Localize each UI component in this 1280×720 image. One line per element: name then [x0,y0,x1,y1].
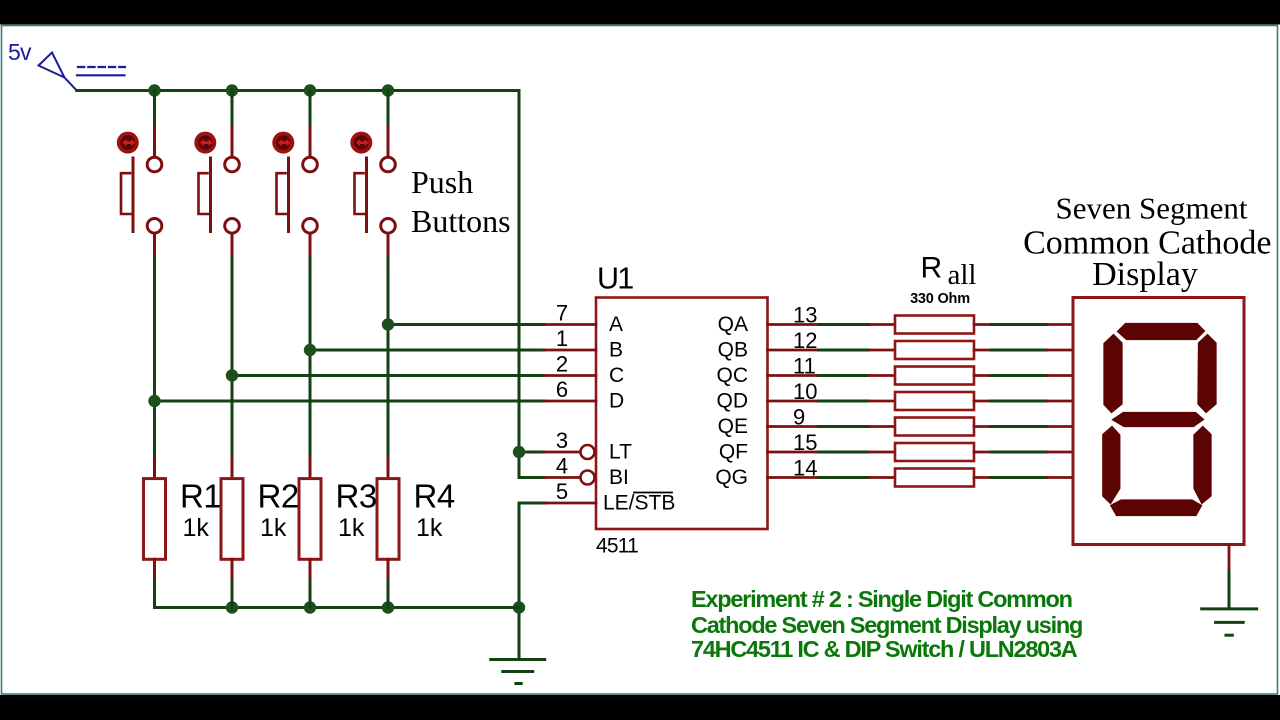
svg-text:2: 2 [556,352,568,377]
svg-text:QB: QB [718,339,748,362]
wire QC to segment c resistor [819,374,896,377]
svg-text:1k: 1k [183,514,210,542]
U1 pin QC (11) [768,374,819,377]
segment e (bottom-left) [1103,427,1120,504]
resistor Rall-a [895,316,974,334]
U1 pin QD (10) [768,400,819,403]
svg-text:Cathode Seven Segment Display: Cathode Seven Segment Display using [691,612,1082,638]
segment a (top) [1118,324,1205,340]
wire: green LT stub from power drop [519,451,544,454]
svg-text:14: 14 [793,456,817,481]
svg-text:QD: QD [717,390,749,413]
junction bottom rail at R3 [304,601,316,613]
svg-text:1k: 1k [260,514,287,542]
resistor Rall-f [895,443,974,461]
svg-text:all: all [948,259,977,291]
push button SW2 [194,91,239,458]
wire QD to segment d resistor [819,400,896,403]
op IC U1 4511 body [596,298,768,530]
svg-text:LT: LT [609,441,632,464]
svg-text:R4: R4 [414,478,455,515]
segment f (top-left) [1104,335,1122,413]
power source triangle symbol [39,53,77,91]
svg-text:LE/STB: LE/STB [603,492,675,515]
resistor R3 [299,457,377,608]
wire: node A from SW4 to U1 pin A [388,323,544,326]
svg-text:QA: QA [718,313,748,336]
wire QE to segment e resistor [819,425,896,428]
wire: bottom ground rail [155,606,520,609]
svg-text:10: 10 [793,379,817,404]
display cathode pin [1228,545,1231,571]
resistor Rall-g [895,469,974,487]
wire: +5V top rail with drop to LT/BI at x=519 [77,91,544,478]
svg-text:Display: Display [1092,256,1198,293]
segment b (top-right) [1198,335,1216,413]
U1 pin LE/STB (5) [545,502,596,505]
U1 pin A (7) [544,323,596,326]
svg-text:5: 5 [556,479,568,504]
wire: node C from SW2 to U1 pin C [232,374,544,377]
push button SW3 [272,91,317,458]
segment g (middle) [1113,413,1204,427]
resistor Rall-e [895,418,974,436]
resistor Rall-c [895,367,974,385]
svg-text:9: 9 [793,405,805,430]
letterbox bottom bar [0,695,1280,720]
U1 pin QG (14) [768,476,819,479]
svg-text:BI: BI [609,466,629,489]
svg-text:1: 1 [556,326,568,351]
resistor Rall-d [895,392,974,410]
wire QA to segment a resistor [819,323,896,326]
wire: LE/STB net from x=519 down to ground rail [519,503,545,660]
svg-text:Push: Push [411,164,473,200]
svg-text:QC: QC [717,364,749,387]
svg-text:QE: QE [718,415,748,438]
svg-text:U1: U1 [597,262,633,296]
junction bottom rail at R2 [226,601,238,613]
wire QB to segment b resistor [819,349,896,352]
wire resistor a to display [974,323,1073,326]
U1 pin QB (12) [768,349,819,352]
wire QF to segment f resistor [819,451,896,454]
svg-text:3: 3 [556,428,568,453]
segment c (bottom-right) [1194,427,1211,504]
wire resistor f to display [974,451,1073,454]
svg-text:C: C [609,364,624,387]
wire resistor e to display [974,425,1073,428]
wire resistor c to display [974,374,1073,377]
svg-text:74HC4511 IC & DIP Switch / ULN: 74HC4511 IC & DIP Switch / ULN2803A [691,636,1078,662]
letterbox top bar [0,0,1280,25]
svg-text:Buttons: Buttons [411,203,511,239]
resistor Rall-b [895,341,974,359]
wire QG to segment g resistor [819,476,896,479]
wire: node D from SW1 to U1 pin D [155,400,545,403]
U1 pin QF (15) [768,451,819,454]
power source dashed line [78,66,125,68]
U1 pin B (1) [544,349,596,352]
svg-text:5v: 5v [8,39,32,65]
wire resistor g to display [974,476,1073,479]
U1 pin LT (3) active-low bubble [544,451,581,454]
svg-text:Seven Segment: Seven Segment [1056,191,1248,226]
junction on top rail at button 1 [148,84,160,96]
U1 pin D (6) [544,400,596,403]
ground symbol (display) [1202,609,1257,635]
svg-text:Experiment # 2 : Single Digit: Experiment # 2 : Single Digit Common [691,586,1072,612]
junction on top rail at button 3 [304,84,316,96]
svg-text:QF: QF [719,441,748,464]
svg-text:4: 4 [556,454,568,479]
junction on top rail at button 2 [226,84,238,96]
ground symbol (main) [491,660,545,684]
svg-text:A: A [609,313,623,336]
segment d (bottom) [1111,500,1202,516]
junction bottom rail at R4 [382,601,394,613]
junction SW1 / node D [148,395,160,407]
push button SW4 [350,91,395,458]
svg-text:12: 12 [793,328,817,353]
svg-text:15: 15 [793,430,817,455]
U1 pin C (2) [544,374,596,377]
svg-text:1k: 1k [338,514,365,542]
svg-text:1k: 1k [416,514,443,542]
power source solid line [77,74,125,76]
seven segment display body [1073,298,1244,545]
svg-text:6: 6 [556,377,568,402]
svg-text:4511: 4511 [596,535,638,558]
svg-text:7: 7 [556,301,568,326]
junction SW2 / node C [226,369,238,381]
junction at bottom rail / ground [513,601,525,613]
resistor R1 [144,457,222,608]
junction on top rail at button 4 [382,84,394,96]
svg-text:13: 13 [793,303,817,328]
junction at LT tap [513,446,525,458]
svg-text:D: D [609,390,624,413]
svg-text:330 Ohm: 330 Ohm [910,291,970,307]
svg-text:R3: R3 [336,478,377,515]
svg-text:R: R [921,252,943,285]
resistor R4 [377,457,455,608]
svg-text:B: B [609,339,623,362]
wire cathode to ground [1228,571,1231,609]
wire resistor b to display [974,349,1073,352]
resistor R2 [221,457,299,608]
U1 pin QA (13) [768,323,819,326]
junction SW4 / node A [382,318,394,330]
svg-text:QG: QG [715,466,748,489]
experiment caption green text [691,586,1082,662]
push button SW1 [117,91,162,458]
junction SW3 / node B [304,344,316,356]
wire resistor d to display [974,400,1073,403]
U1 pin BI (4) active-low bubble [544,476,581,479]
wire: node B from SW3 to U1 pin B [310,349,544,352]
svg-text:11: 11 [793,354,816,379]
svg-text:R2: R2 [258,478,299,515]
svg-text:R1: R1 [180,478,221,515]
U1 pin QE (9) [768,425,819,428]
